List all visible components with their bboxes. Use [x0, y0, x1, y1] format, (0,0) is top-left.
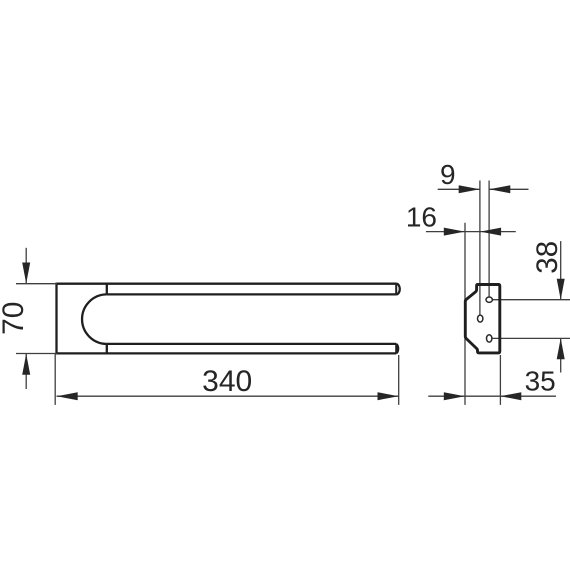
16 arrow left	[480, 228, 501, 236]
arrowheads	[22, 185, 565, 400]
9 dimension line right part	[489, 188, 528, 190]
wire: top bar end cap	[396, 284, 400, 295]
wire: bottom bar end cap	[396, 344, 398, 354]
wire: block right edge bottom segment	[106, 344, 108, 354]
extension line B (middle hole axis)	[479, 181, 481, 316]
bottom hole	[487, 335, 492, 342]
70 arrow up	[22, 354, 30, 375]
35 dimension line	[428, 395, 556, 397]
svg-text:38: 38	[531, 241, 564, 274]
wire: bottom bar top edge	[107, 343, 396, 345]
wire: U-bend inner arc	[82, 294, 107, 344]
70 extension line bottom	[16, 353, 57, 355]
svg-text:35: 35	[525, 365, 556, 396]
340 arrow right	[378, 392, 399, 400]
70 arrow down	[22, 263, 30, 284]
svg-text:70: 70	[0, 302, 30, 335]
extension line C (top/bottom hole axis)	[488, 181, 490, 298]
16 dimension line	[426, 231, 516, 233]
wire: top bar bottom edge	[107, 293, 396, 295]
wire: block right edge top segment	[106, 284, 108, 295]
340 extension line left	[54, 354, 56, 405]
svg-text:9: 9	[440, 159, 456, 190]
middle hole	[478, 315, 483, 322]
side view: wall bracket plate outline	[465, 285, 500, 353]
9 dimension line left part	[438, 188, 480, 190]
9 arrow left	[489, 185, 510, 193]
340 dimension line	[57, 395, 399, 397]
35 arrow right	[444, 392, 465, 400]
9 arrow right	[459, 185, 480, 193]
extension line D (wall face)	[499, 355, 501, 405]
70 dimension line upper	[25, 248, 27, 284]
svg-text:16: 16	[406, 201, 437, 232]
38 dimension line lower	[560, 338, 562, 372]
wire: block+top bar top edge	[57, 283, 397, 285]
bottom hole extension line	[492, 337, 570, 339]
wire: bottom bar end tangent line	[395, 344, 397, 354]
35 arrow left	[500, 392, 521, 400]
top hole extension line	[492, 299, 570, 301]
wire: block+bottom bar bottom edge	[57, 352, 397, 354]
wire: top bar end tangent line	[395, 284, 397, 295]
extension line A (plate front face)	[464, 223, 466, 405]
38 arrow down	[557, 279, 565, 300]
wire: block left edge	[55, 283, 57, 355]
top hole	[486, 297, 492, 302]
bracket holes	[478, 297, 493, 342]
340 extension line right	[398, 355, 400, 405]
front view: towel rail body outline	[57, 283, 400, 355]
16 arrow right	[444, 228, 465, 236]
dimension thin lines	[16, 181, 570, 405]
70 dimension line lower	[25, 354, 27, 389]
340 arrow left	[57, 392, 78, 400]
38 dimension line upper	[560, 241, 562, 299]
38 arrow up	[557, 338, 565, 359]
svg-text:340: 340	[202, 365, 252, 398]
70 extension line top	[16, 283, 57, 285]
